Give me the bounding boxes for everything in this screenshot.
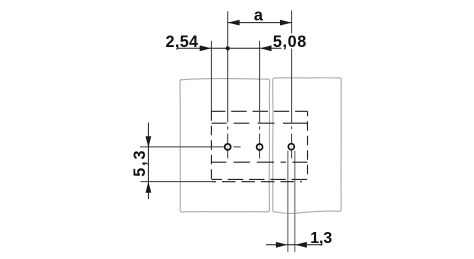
dimension 5,3 (vertical at left) [146,123,152,200]
arrow pointing left at x=260.3 (5,08) [260,45,272,51]
pin row center line (horizontal) [140,146,241,148]
extension line for 2,54 (left, vertical) [210,41,212,112]
svg-text:2,54: 2,54 [166,33,199,51]
dashed front edge line below outline [212,181,303,183]
dashed inner line upper (housing step) [211,122,307,124]
connector body 2 (right, light gray outline) [273,78,342,214]
svg-text:1,3: 1,3 [310,230,332,247]
pin leg line left (gray, below pin 3) [287,151,289,252]
pin 3 center line (vertical, dash-dot, gap at 5,08 label) [291,10,293,158]
pin 2 center line (vertical, dash-dot) [259,41,261,159]
pin leg line right (gray, below pin 3) [294,151,296,252]
dashed inner line lower (housing step) [211,161,307,163]
pin hole 2 (circle) [257,144,263,150]
pin hole 1 (circle) [225,144,231,150]
dimension 2,54 / 5,08 line [177,47,282,49]
arrow pointing right at left pin leg [276,242,287,248]
svg-text:5,3: 5,3 [131,149,149,177]
arrow pointing left at right pin leg [295,242,306,248]
chain dot terminator at pin 1 [226,46,230,50]
dimension 1,3 (bottom) [266,244,323,246]
arrow pointing right at x=211.4 (2,54) [200,45,212,51]
svg-text:a: a [254,7,264,25]
pin 1 center line (vertical, dash-dot) [227,11,229,158]
connector body 1 (left, light gray outline) [180,79,270,212]
extension line for 5,3 bottom (horizontal) [141,181,212,183]
pin hole 3 (circle) [288,144,294,150]
dashed housing outline rectangle [211,111,307,179]
svg-text:5,08: 5,08 [273,33,307,51]
dimension a: line and arrows [228,20,292,26]
